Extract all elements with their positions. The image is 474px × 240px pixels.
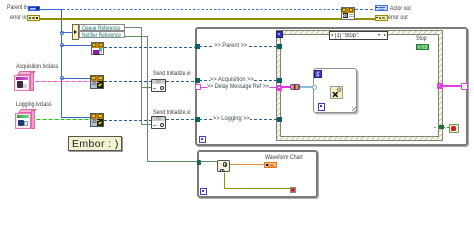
wire notifier ref (125, 36, 147, 37)
iteration terminal i (main loop) (199, 136, 206, 143)
unbundle row Notifier Reference (79, 31, 126, 38)
light blue wire (300, 86, 314, 88)
wire logging class (34, 119, 90, 121)
wire A out dashed (104, 47, 195, 48)
tunnel loop-left Acquisition (195, 78, 200, 83)
wire error out (355, 18, 375, 20)
tunnel case-right magenta (437, 83, 443, 89)
wire error chart (224, 173, 225, 189)
vi Launch C (90, 113, 104, 127)
wire Parent in horizontal (40, 9, 63, 10)
stop terminal red (290, 187, 297, 194)
vi Send Initialize 1 (153, 71, 191, 78)
wire acquisition class (33, 81, 90, 83)
wire launch C out dashed (104, 120, 151, 121)
unbundle row Queue Reference (79, 24, 126, 31)
unbundle by name node (72, 24, 79, 41)
tunnel case-right green (439, 125, 444, 130)
indicator terminal error out (375, 15, 388, 21)
corner icon S (314, 70, 322, 78)
wire to launch C (61, 117, 90, 118)
magenta wire case to loop border (442, 85, 462, 86)
tunnel case-left Logging (277, 117, 282, 122)
coil icon (290, 84, 300, 90)
wire send2 out dashed (166, 119, 196, 120)
wire error branch vertical (141, 27, 142, 125)
wire delay row in-loop (201, 87, 277, 88)
corner icon P (276, 31, 283, 38)
tunnel loop-left Delay (ring) (195, 84, 201, 90)
indicator terminal Actor out (375, 5, 388, 11)
resize glyph (352, 107, 356, 112)
wire notifier vertical (147, 36, 148, 162)
wire to launch B (61, 78, 90, 79)
junction to delay vi (60, 43, 64, 47)
subvi frame (313, 68, 357, 113)
wire acquisition row in-loop (199, 80, 279, 81)
pink wire in case (281, 86, 290, 87)
vi Launch B (90, 75, 104, 89)
boolean constant Stop (416, 36, 427, 43)
wire Parent in vertical (61, 9, 62, 118)
wire send1 out dashed (166, 81, 196, 82)
loop condition terminal (449, 124, 459, 133)
tunnel case-left Parent (277, 44, 282, 49)
junction to unbundle (60, 31, 64, 35)
wire queue to chart loop (147, 161, 217, 162)
wire to condition terminal (443, 127, 449, 128)
label waveform chart (265, 155, 303, 162)
iteration terminal i (chart loop) (200, 188, 207, 195)
case structure (276, 30, 443, 141)
x message icon (330, 86, 343, 99)
wire chart orange (230, 164, 264, 165)
vi top T (341, 7, 355, 20)
tunnel loop-left Parent (195, 44, 200, 49)
class cube Acquisition (16, 64, 58, 71)
wire error stub to send2 (141, 124, 151, 125)
wire launch B out dashed (104, 81, 151, 82)
label Embor (68, 136, 122, 151)
corner icon n (318, 103, 326, 111)
wire parent row in-loop (199, 46, 279, 47)
vi Send Initialize 2 (153, 110, 191, 117)
tunnel frame-left (ring) (312, 85, 317, 90)
tunnel case-left Acquisition (277, 78, 282, 83)
wire queue ref (125, 27, 142, 28)
control terminal error in (10, 15, 26, 22)
wire error in horizontal (39, 18, 342, 20)
indicator terminal waveform chart (264, 162, 277, 169)
while loop (main) (195, 27, 468, 146)
chart loop: tunnel/wire (200, 161, 216, 162)
junction chart loop tunnel (197, 160, 202, 165)
wire logging row in-loop (199, 119, 279, 120)
tunnel loop-left Logging (195, 117, 200, 122)
while loop (chart) (197, 150, 318, 198)
wire stop boolean (434, 127, 439, 128)
wire actor out dashed (355, 9, 375, 10)
vi read chart (217, 160, 231, 172)
wire to unbundle (61, 32, 73, 33)
case selector (329, 31, 388, 40)
junction to launch B (60, 76, 64, 80)
wire error stub to send1 (141, 87, 151, 88)
control terminal Parent in (7, 5, 28, 12)
wire to delay vi A (61, 45, 91, 46)
tunnel case-left Delay (276, 85, 282, 91)
tunnel loop-right magenta ring (461, 83, 468, 90)
vi Delay Queue A (91, 42, 104, 55)
class cube Logging (16, 102, 52, 109)
